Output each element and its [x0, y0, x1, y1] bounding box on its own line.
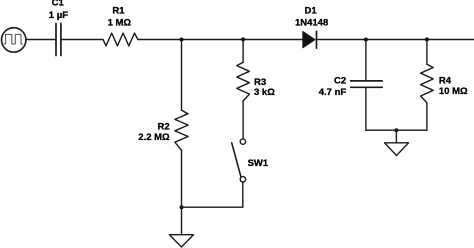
wire bottom junction to ground: [181, 207, 183, 234]
wire main rail to R3: [242, 40, 244, 63]
switch SW1 bottom contact: [240, 177, 245, 182]
wire bottom rail to ground: [395, 130, 397, 143]
wire R2 to bottom junction: [181, 150, 183, 207]
switch SW1 top contact: [240, 139, 245, 144]
capacitor C1: [56, 23, 61, 55]
wire D1 to right edge: [317, 39, 474, 41]
source V1 (square-wave generator): [2, 28, 26, 52]
svg-text:D1: D1: [305, 6, 318, 17]
wire C1 to R1: [62, 39, 103, 41]
node junction dot at R3 branch: [241, 37, 245, 41]
diode D1 cathode bar: [316, 31, 318, 48]
svg-text:C1: C1: [52, 0, 65, 9]
node junction dot at R4 branch: [425, 37, 429, 41]
ground (left): [169, 235, 193, 247]
node junction dot bottom left: [180, 205, 184, 209]
svg-text:10 MΩ: 10 MΩ: [439, 86, 468, 97]
resistor R1: [103, 33, 138, 46]
svg-text:4.7 nF: 4.7 nF: [319, 87, 347, 98]
svg-text:2.2 MΩ: 2.2 MΩ: [138, 132, 170, 143]
resistor R4: [421, 64, 434, 103]
svg-text:1 MΩ: 1 MΩ: [108, 17, 132, 28]
node junction dot at R2 branch: [180, 38, 184, 42]
wire C2 to bottom rail: [365, 88, 367, 130]
capacitor C2: [351, 81, 383, 87]
wire R1 to D1: [138, 39, 303, 41]
diode D1: [303, 32, 315, 48]
svg-text:R1: R1: [112, 5, 125, 16]
wire bottom rail C2 to R4: [366, 129, 427, 131]
svg-text:3 kΩ: 3 kΩ: [254, 87, 275, 98]
svg-text:R2: R2: [158, 122, 170, 133]
wire R4 to bottom rail: [426, 103, 428, 130]
resistor R2: [175, 110, 188, 150]
wire R3 to switch: [242, 101, 244, 139]
node junction dot at C2 branch: [364, 38, 368, 42]
wire switch branch bottom: [182, 206, 243, 208]
wire source to C1: [26, 39, 55, 41]
source square-wave glyph: [4, 34, 23, 44]
svg-text:1 µF: 1 µF: [49, 10, 68, 21]
svg-text:R4: R4: [439, 75, 452, 86]
svg-text:1N4148: 1N4148: [295, 17, 328, 28]
wire main rail to R2: [181, 40, 183, 111]
wire main rail to R4: [426, 40, 428, 65]
switch SW1 blade: [232, 143, 241, 177]
svg-text:C2: C2: [334, 76, 346, 87]
svg-text:SW1: SW1: [248, 158, 269, 169]
resistor R3: [237, 62, 250, 101]
wire main rail to C2: [365, 40, 367, 81]
wire switch to bottom corner: [242, 182, 244, 207]
ground (right): [385, 143, 409, 156]
node junction dot bottom right: [394, 128, 398, 132]
